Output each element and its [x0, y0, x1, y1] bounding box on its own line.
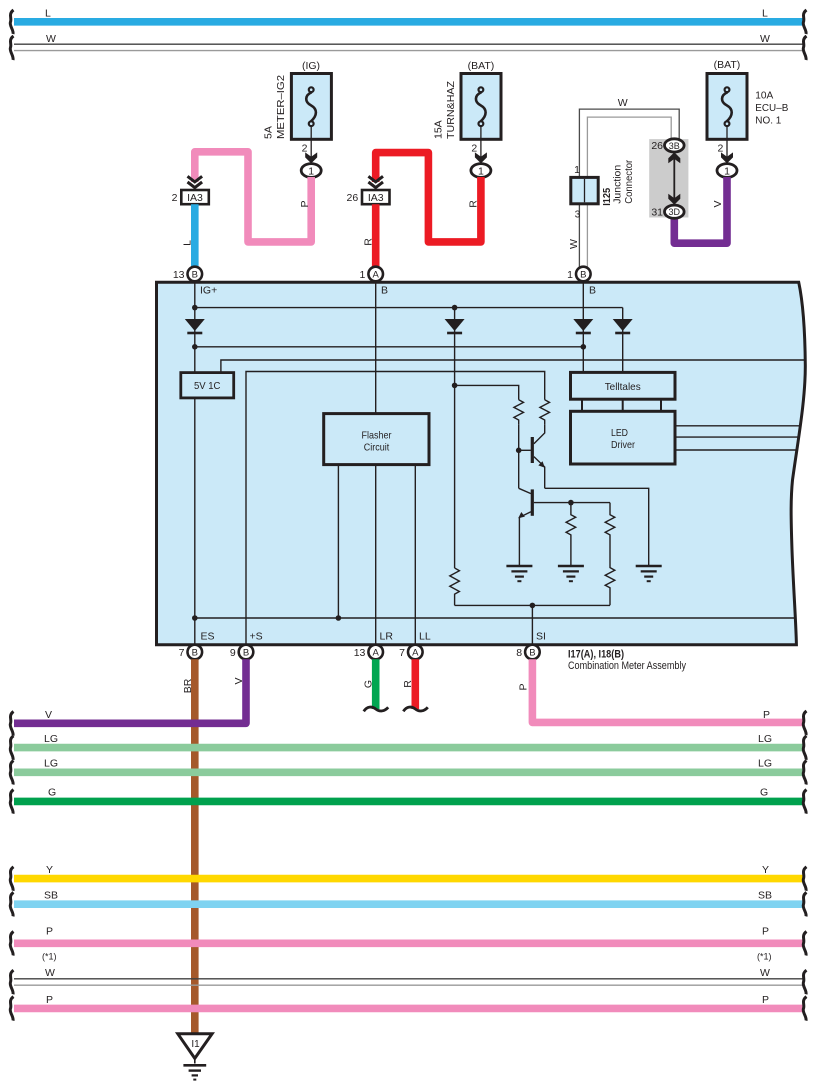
svg-text:B: B — [589, 285, 596, 297]
svg-text:W: W — [760, 967, 770, 979]
svg-text:A: A — [373, 270, 380, 281]
svg-text:2: 2 — [302, 143, 308, 155]
svg-text:L: L — [45, 8, 51, 20]
svg-text:1: 1 — [478, 165, 484, 177]
node dot — [336, 615, 342, 621]
svg-text:G: G — [760, 787, 768, 799]
svg-text:SB: SB — [44, 889, 58, 901]
svg-text:P: P — [762, 994, 769, 1006]
svg-text:W: W — [618, 97, 628, 109]
svg-text:26: 26 — [347, 192, 359, 204]
svg-text:1: 1 — [308, 165, 314, 177]
svg-text:Connector: Connector — [623, 159, 635, 203]
node dot — [192, 344, 198, 350]
connector 26 IA3 — [347, 176, 390, 204]
transistor Q1 — [519, 424, 545, 488]
svg-text:+S: +S — [250, 631, 263, 643]
pin 2 of F2, arrow and connector oval 1 — [471, 126, 491, 177]
svg-text:NO. 1: NO. 1 — [755, 115, 781, 127]
diode D3 — [573, 319, 593, 333]
ground 2 — [558, 566, 584, 581]
svg-text:Circuit: Circuit — [364, 442, 390, 454]
svg-text:A: A — [412, 648, 419, 659]
svg-text:5A: 5A — [263, 126, 275, 139]
combination meter assembly box I17/I18 — [157, 282, 806, 645]
svg-text:2: 2 — [172, 192, 178, 204]
flasher leg 1 — [337, 465, 339, 618]
svg-text:METER–IG2: METER–IG2 — [275, 75, 287, 139]
bus P bottom — [10, 994, 806, 1021]
svg-text:LL: LL — [419, 631, 431, 643]
svg-text:Driver: Driver — [611, 439, 635, 451]
LED driver output lines — [675, 426, 799, 450]
terminal 1(B) top — [567, 267, 596, 297]
svg-text:BR: BR — [182, 678, 194, 693]
svg-text:I1: I1 — [191, 1039, 200, 1050]
wire G (green) stub from LR — [362, 659, 388, 711]
svg-text:10A: 10A — [755, 90, 773, 102]
svg-text:L: L — [762, 8, 768, 20]
terminal 8(B) SI bottom — [516, 631, 546, 660]
flasher leg 2 to LR — [375, 465, 377, 645]
wire R1 to base — [518, 424, 520, 488]
svg-text:P: P — [517, 683, 529, 690]
svg-text:(BAT): (BAT) — [468, 60, 495, 72]
svg-text:I17(A), I18(B): I17(A), I18(B) — [568, 649, 624, 661]
flasher leg 3 to LL — [414, 465, 416, 645]
resistor R3 — [566, 503, 576, 566]
bus P (*1) — [10, 926, 806, 962]
wire B middle vertical — [375, 281, 377, 413]
svg-text:2: 2 — [471, 143, 477, 155]
node dot — [568, 500, 574, 506]
node dot — [530, 603, 536, 609]
bus W bottom — [10, 967, 806, 994]
wire: bus W (white) top — [10, 33, 806, 60]
svg-text:LR: LR — [380, 631, 394, 643]
wire 5V feed — [221, 360, 805, 373]
svg-text:P: P — [763, 709, 770, 721]
svg-text:ECU–B: ECU–B — [755, 102, 788, 114]
svg-text:1: 1 — [567, 269, 573, 281]
transistor Q2 — [518, 488, 610, 566]
wire R (red) from IA3 to terminal 1(A) — [362, 204, 375, 267]
flasher circuit box — [324, 414, 429, 465]
svg-text:P: P — [46, 926, 53, 938]
svg-text:LG: LG — [758, 758, 772, 770]
wire V (violet) from F3 oval to junction oval 3D — [674, 177, 727, 243]
rail node row 1 — [195, 307, 623, 309]
ground 1 — [506, 566, 532, 581]
wire +S vertical and rail — [246, 372, 545, 646]
svg-text:IA3: IA3 — [187, 192, 203, 204]
svg-text:7: 7 — [399, 647, 405, 659]
caption I17(A), I18(B) Combination Meter Assembly — [568, 649, 686, 672]
svg-text:8: 8 — [516, 647, 522, 659]
svg-text:Y: Y — [46, 864, 53, 876]
resistor R4 and R5 chain — [605, 503, 615, 606]
resistor R2 — [540, 400, 550, 425]
terminal 13(B) IG+ top — [173, 267, 217, 297]
svg-text:W: W — [568, 239, 580, 249]
svg-text:B: B — [192, 648, 198, 659]
ground 4 — [636, 566, 662, 581]
diode D4 branch — [622, 308, 624, 373]
svg-text:SI: SI — [536, 631, 546, 643]
svg-text:P: P — [46, 994, 53, 1006]
svg-text:W: W — [760, 33, 770, 45]
fuse F2 15A TURN&HAZ — [433, 60, 502, 139]
wire L (blue) from IA3 to terminal 13(B) — [181, 204, 195, 267]
svg-text:B: B — [243, 648, 249, 659]
ground I1 — [178, 1034, 212, 1080]
fuse F1 5A METER-IG2 — [263, 60, 332, 139]
wire SI vertical — [531, 605, 533, 645]
wire ES vertical — [194, 398, 196, 645]
svg-text:SB: SB — [758, 889, 772, 901]
svg-text:B: B — [381, 285, 388, 297]
svg-text:IA3: IA3 — [368, 192, 384, 204]
svg-text:LG: LG — [44, 733, 58, 745]
svg-text:LG: LG — [44, 758, 58, 770]
svg-text:Y: Y — [762, 864, 769, 876]
wire R (red) from F2 to connector IA3 — [376, 153, 481, 242]
rail ES link — [195, 617, 794, 619]
svg-text:B: B — [580, 270, 586, 281]
svg-text:B: B — [529, 648, 535, 659]
wire sense branch vertical — [454, 308, 456, 568]
svg-text:W: W — [46, 33, 56, 45]
node dot — [452, 383, 458, 389]
connector 2 IA3 — [172, 176, 209, 204]
wire IG+ vertical — [194, 281, 196, 372]
wire B right vertical — [582, 281, 584, 372]
svg-text:LED: LED — [611, 427, 628, 439]
terminal 7(A) LL bottom — [399, 631, 431, 660]
bus SB — [10, 889, 806, 916]
diode D2 — [445, 319, 465, 333]
svg-text:3: 3 — [575, 209, 581, 221]
svg-text:31: 31 — [651, 206, 663, 218]
resistor R1 — [514, 400, 524, 425]
bus LG 2 — [10, 758, 806, 785]
node dot — [581, 344, 587, 350]
node dot — [516, 448, 522, 454]
telltales to LED driver stubs — [582, 399, 661, 411]
svg-text:P: P — [299, 200, 311, 207]
svg-text:9: 9 — [230, 647, 236, 659]
resistor R0 — [450, 568, 460, 605]
svg-text:Combination Meter Assembly: Combination Meter Assembly — [568, 660, 686, 672]
wire R (red) stub from LL — [402, 659, 428, 711]
svg-text:(IG): (IG) — [302, 60, 320, 72]
svg-text:P: P — [762, 926, 769, 938]
svg-text:IG+: IG+ — [200, 285, 217, 297]
svg-text:B: B — [192, 270, 198, 281]
svg-text:W: W — [45, 967, 55, 979]
regulator 5V 1C — [181, 373, 234, 398]
terminal 1(A) top — [360, 267, 388, 297]
pin 2 of F3, arrow and connector oval 1 — [717, 126, 737, 177]
svg-text:R: R — [402, 680, 414, 688]
svg-text:(*1): (*1) — [757, 952, 772, 962]
svg-text:V: V — [712, 200, 724, 207]
node dot — [192, 305, 198, 311]
svg-text:R: R — [467, 200, 479, 208]
svg-text:TURN&HAZ: TURN&HAZ — [445, 80, 457, 139]
svg-text:Flasher: Flasher — [362, 430, 392, 442]
svg-text:R: R — [362, 238, 374, 246]
wire BR (brown) from ES to ground I1 — [182, 659, 195, 1033]
svg-text:3B: 3B — [669, 141, 680, 151]
pin 2 of F1, arrow and connector oval 1 — [301, 126, 321, 177]
wire W (white) from junction 3B to terminal 1(B) — [568, 97, 679, 274]
terminal 13(A) LR bottom — [354, 631, 394, 660]
svg-text:3D: 3D — [669, 207, 681, 217]
svg-text:G: G — [48, 787, 56, 799]
diode D4 — [613, 319, 633, 333]
svg-text:LG: LG — [758, 733, 772, 745]
terminal 9(B) +S bottom — [230, 631, 263, 660]
svg-text:ES: ES — [201, 631, 215, 643]
junction block 3B/3D (grey highlight) — [649, 139, 688, 219]
svg-text:V: V — [233, 677, 245, 684]
telltales box — [571, 372, 676, 399]
wire V (violet) bus from +S to left — [10, 659, 246, 735]
svg-text:A: A — [373, 648, 380, 659]
svg-text:1: 1 — [360, 269, 366, 281]
svg-text:Junction: Junction — [612, 165, 624, 204]
svg-text:(BAT): (BAT) — [714, 59, 741, 71]
bus Y — [10, 864, 806, 891]
wire: bus L (blue) top — [10, 8, 806, 35]
diode D1 — [185, 319, 205, 333]
svg-text:26: 26 — [651, 140, 663, 152]
svg-text:5V 1C: 5V 1C — [194, 380, 221, 392]
terminal 7(B) ES bottom — [179, 631, 215, 660]
bus G — [10, 787, 806, 814]
svg-text:1: 1 — [724, 165, 730, 177]
wire Q1 emitter run to ground — [545, 488, 649, 566]
svg-text:L: L — [181, 240, 193, 246]
bus LG 1 — [10, 733, 806, 760]
svg-text:7: 7 — [179, 647, 185, 659]
svg-text:G: G — [362, 680, 374, 688]
wire P (pink) from SI to right bus — [517, 659, 806, 735]
node dot — [192, 615, 198, 621]
wire P (pink) from F1 to connector IA3 — [195, 152, 311, 242]
svg-text:(*1): (*1) — [42, 952, 57, 962]
svg-text:13: 13 — [354, 647, 366, 659]
svg-text:1: 1 — [574, 164, 580, 176]
svg-text:Telltales: Telltales — [605, 381, 641, 393]
svg-text:13: 13 — [173, 269, 185, 281]
svg-text:15A: 15A — [433, 120, 445, 139]
svg-text:V: V — [45, 709, 52, 721]
wire base feed — [455, 385, 519, 399]
LED driver box — [571, 411, 676, 464]
node dot — [452, 305, 458, 311]
rail SI bottom — [455, 604, 610, 606]
rail node row 2 — [195, 346, 584, 348]
fuse F3 10A ECU-B NO.1 — [707, 59, 788, 139]
junction connector I125 — [571, 159, 635, 220]
svg-text:2: 2 — [717, 143, 723, 155]
